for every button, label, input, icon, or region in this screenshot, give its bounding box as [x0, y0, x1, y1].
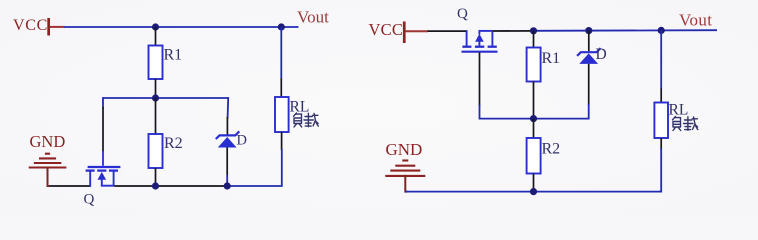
pin RL top (right): [660, 89, 662, 104]
pin zener cathode (left): [226, 117, 228, 135]
wire body tie (right): [479, 30, 493, 32]
svg-text:VCC: VCC: [13, 17, 48, 34]
transistor Q1 body arrow: [98, 172, 107, 180]
pin RL bottom (left): [281, 132, 283, 150]
svg-text:GND: GND: [30, 132, 66, 151]
resistor RL load (right): [654, 103, 668, 139]
wire RL drop (right): [660, 30, 662, 89]
transistor Q1 channel bars: [86, 169, 118, 171]
wire gate to divider (right): [479, 106, 481, 119]
svg-text:R2: R2: [164, 135, 183, 152]
label load 载 (left): [304, 113, 318, 126]
resistor R2 (right): [527, 138, 541, 174]
transistor Q2 body stem: [478, 31, 480, 47]
node rail/zener (right): [585, 27, 592, 34]
node rail/RL (left): [278, 23, 285, 30]
wire source tie (left): [101, 185, 115, 187]
transistor Q1 source leg: [113, 171, 115, 186]
wire VCC stub (red, right): [406, 30, 429, 32]
transistor Q1 gate bar: [88, 166, 121, 168]
svg-text:VCC: VCC: [369, 20, 404, 39]
pin R2 bottom (left): [155, 168, 157, 186]
pin zener anode (left): [226, 148, 228, 176]
node rail/R1 (left): [152, 23, 159, 30]
zener diode D body (right): [579, 53, 598, 64]
pin R2 top (left): [155, 98, 157, 135]
wire VCC stub (red, left): [50, 26, 65, 28]
ground symbol (right): [385, 161, 425, 176]
wire zener to divider (right): [534, 105, 589, 119]
node R2/bottom (left): [152, 182, 159, 189]
svg-text:D: D: [237, 133, 247, 149]
wire divider rail (right): [480, 118, 535, 120]
pin R1 top (left): [155, 27, 157, 46]
svg-text:Vout: Vout: [297, 8, 329, 27]
svg-text:R1: R1: [164, 47, 183, 64]
wire ground to transistor (left): [47, 185, 91, 187]
pin R1 top (right): [533, 31, 535, 48]
ground stem (left): [48, 168, 49, 187]
pin RL bottom (right): [660, 138, 662, 150]
wire mid rail (left): [103, 97, 228, 99]
wire RL drop (left): [280, 27, 282, 79]
svg-text:R1: R1: [542, 50, 561, 67]
wire VCC to transistor (right): [428, 30, 467, 32]
transistor Q2 gate bar: [462, 51, 498, 53]
svg-text:Q: Q: [457, 6, 468, 22]
wire zener to bottom (left): [226, 175, 228, 187]
wire RL to bottom rail (right): [660, 149, 661, 192]
pin zener cathode (right): [588, 31, 590, 51]
resistor R2 (left): [149, 134, 163, 168]
zener diode D cathode bar (right): [577, 48, 601, 56]
ground stem (right): [405, 176, 406, 192]
resistor R1 (right): [527, 48, 541, 82]
VCC terminal bar (left): [47, 18, 50, 36]
pin R1 bottom (right): [533, 82, 535, 119]
resistor RL load (left): [275, 97, 289, 132]
ground symbol (left): [29, 154, 67, 168]
pin RL top (left): [280, 79, 282, 98]
zener diode D body (left): [218, 137, 237, 148]
pin gate Q2: [479, 53, 481, 107]
resistor R1 (left): [149, 46, 163, 80]
zener diode D cathode bar (left): [216, 131, 240, 139]
wire gate lower stub (left): [102, 151, 104, 166]
wire bottom rail (right): [405, 191, 661, 193]
svg-text:Vout: Vout: [679, 11, 712, 30]
transistor Q2 body arrow: [475, 34, 484, 42]
node R2/bottom (right): [530, 188, 537, 195]
node R1/R2/gate (left): [152, 94, 159, 101]
svg-text:Q: Q: [84, 192, 95, 208]
node zener/bottom (left): [224, 182, 231, 189]
wire bottom rail black segment (left): [114, 185, 227, 187]
pin gate (left): [102, 107, 104, 152]
label load 负 (left): [294, 113, 302, 127]
pin R2 bottom (right): [533, 174, 535, 192]
wire top rail (right): [534, 29, 718, 32]
wire top rail (left): [64, 26, 299, 28]
pin zener anode (right): [588, 64, 590, 105]
transistor Q2 source leg: [466, 31, 468, 46]
VCC terminal bar (right): [403, 22, 406, 44]
wire gate stub (left): [102, 98, 104, 108]
transistor Q1 drain leg: [89, 171, 91, 187]
svg-text:RL: RL: [669, 102, 689, 119]
wire transistor to rail (right): [492, 30, 534, 32]
node rail/RL (right): [658, 27, 665, 34]
svg-text:D: D: [596, 46, 607, 63]
svg-text:GND: GND: [386, 140, 423, 159]
svg-text:R2: R2: [542, 141, 561, 158]
pin R1 bottom (left): [155, 79, 157, 98]
node rail/R1 (right): [530, 27, 537, 34]
node R1/R2/zener (right): [530, 115, 537, 122]
svg-text:RL: RL: [290, 99, 310, 116]
transistor Q2 drain leg: [491, 31, 493, 47]
pin R2 top (right): [533, 119, 535, 139]
label load 载 (right): [684, 117, 698, 130]
transistor Q2 channel bars: [462, 46, 496, 48]
transistor Q1 body leg: [101, 180, 103, 187]
wire RL to bottom rail (left): [227, 150, 282, 187]
label load 负 (right): [673, 117, 681, 131]
wire zener drop (left): [227, 98, 230, 118]
